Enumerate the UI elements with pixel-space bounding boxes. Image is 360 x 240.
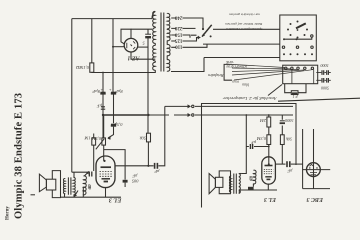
svg-text:µF: µF [287, 169, 293, 174]
wire left rail vertical [71, 19, 73, 173]
svg-text:240: 240 [174, 14, 182, 20]
svg-text:600: 600 [248, 175, 253, 181]
node rail x103 on B+ line [102, 72, 104, 74]
resistor R 0.1M [90, 63, 94, 72]
tick mark left margin [31, 194, 36, 196]
speaker 2 cone [209, 174, 215, 194]
resistor R 0.3M [267, 135, 271, 145]
svg-text:µF: µF [132, 174, 138, 179]
power transformer T1 core [161, 13, 164, 72]
connector arrow lower to box [188, 113, 192, 117]
svg-text:50k: 50k [139, 135, 146, 140]
wire box rail lower [195, 114, 293, 116]
wire B+ bus thin continuation [148, 114, 187, 116]
wire AZ1 top loop [121, 29, 131, 44]
svg-text:µF: µF [251, 140, 256, 145]
speaker 1 coil box [46, 179, 55, 190]
svg-text:EL 3: EL 3 [264, 196, 277, 202]
capacitor across primary [89, 172, 92, 177]
wire bottom rail stage1 [61, 196, 122, 198]
wire selector output to panel [203, 43, 280, 45]
wire tube2 plate line [275, 163, 286, 165]
svg-text:Horny: Horny [6, 206, 11, 220]
AZ1 plate electrodes [127, 41, 135, 49]
svg-text:600: 600 [87, 184, 92, 190]
capacitor pair lower 5000pF [316, 79, 331, 81]
selector knob bar [296, 23, 306, 28]
wire tap 220 [183, 27, 196, 29]
power transformer T1 right winding section A [167, 13, 170, 28]
wire fuse loop [285, 84, 306, 93]
wire speaker frame bottom [60, 197, 62, 199]
capacitor C 8uF second [111, 91, 116, 93]
wire T3 top lead [239, 173, 242, 175]
choke tap arrow top [84, 171, 89, 176]
EL3 second electrodes [265, 165, 273, 167]
svg-text:5000: 5000 [284, 118, 293, 123]
wire EL3 plate line [115, 165, 154, 167]
node plate junction [147, 165, 149, 167]
wire top horizontal bus [72, 18, 152, 20]
T3 core [234, 174, 237, 194]
wire T1 right winding links and taps [167, 13, 176, 72]
wire T1 winding section links [152, 27, 155, 73]
node tube2 grid [268, 163, 270, 165]
fuse F1 [291, 91, 298, 95]
svg-text:Olympic 38 Endstufe E 173: Olympic 38 Endstufe E 173 [14, 93, 25, 219]
node selector contact [210, 35, 212, 37]
connector arrow upper to box [188, 104, 192, 108]
bracket connector [224, 64, 232, 80]
svg-text:50k: 50k [286, 137, 292, 142]
wire cap to pot wiper arrow [108, 127, 114, 138]
svg-text:weiß: weiß [226, 60, 233, 64]
power transformer T1 left winding section A [153, 11, 156, 26]
capacitor small on rail [101, 107, 105, 109]
wire to upper connector arrow [165, 105, 188, 107]
switch voltage selector arm [202, 25, 212, 37]
node rail junction b [268, 114, 270, 116]
wire HV tap to winding [131, 28, 152, 30]
power transformer T1 right winding section D [167, 60, 170, 72]
wire T2 primary top to left rail [73, 172, 75, 177]
power transformer T1 left winding section B [153, 28, 156, 43]
capacitor C 8uF first [101, 91, 106, 93]
choke bottom arrow [74, 191, 78, 198]
resistor R 2M [267, 117, 271, 127]
terminal circles [285, 67, 287, 69]
capacitor C 0.05uF body [123, 180, 128, 183]
capacitor coupling C2 [287, 161, 290, 167]
EBC3 electrodes [310, 164, 318, 174]
capacitor 5000 [280, 120, 285, 122]
node selector pivot [202, 28, 204, 30]
tube EL3 first envelope [96, 156, 115, 188]
wire tap 150 [183, 35, 197, 38]
node grid top cap [103, 160, 105, 162]
wire vertical AZ1 plate rail [112, 19, 114, 92]
svg-text:F 1: F 1 [292, 94, 298, 99]
wire resistor chain vertical [268, 115, 270, 164]
wire selector mid to panel [213, 28, 280, 30]
svg-text:0,1MΩ: 0,1MΩ [75, 64, 89, 70]
svg-text:nur rückwärts gesehen: nur rückwärts gesehen [229, 13, 260, 17]
wire AZ1 filament to heater winding [131, 52, 152, 59]
svg-text:2M: 2M [260, 118, 266, 123]
speaker 1 cone [39, 174, 46, 192]
svg-text:schwarz grau: schwarz grau [226, 65, 247, 69]
wire 50k bottom to plate line [147, 142, 149, 166]
svg-text:8µF: 8µF [115, 89, 123, 94]
wire vertical to R 0.1M [91, 19, 93, 63]
wire tap 240 [183, 18, 204, 29]
EL3 first electrodes [101, 166, 112, 168]
wire grid cap rail x113.5 [113, 92, 115, 123]
resistor R 1M [92, 138, 96, 145]
panel contact row 2 circles [282, 46, 284, 48]
resistor R 50k second [280, 135, 284, 145]
wire cathode rail vertical x148 [147, 29, 149, 133]
svg-text:+: + [109, 87, 112, 92]
capacitor pair upper 5000pF [316, 72, 331, 74]
wire EBC3 horizontal lead [303, 169, 331, 171]
node rail junction a [245, 114, 247, 116]
wire selector lower output to panel [204, 57, 280, 59]
node grid junction 2 [268, 146, 270, 148]
svg-text:5000: 5000 [321, 85, 329, 90]
svg-text:1M: 1M [84, 136, 90, 141]
tube EL3 second envelope [262, 157, 276, 184]
wire pot bottom to grid [103, 145, 105, 161]
capacitor cathode 2 body [248, 187, 254, 191]
wire long mains line [278, 98, 360, 101]
power transformer T1 right winding section B [167, 30, 170, 41]
leader line to box label [268, 85, 282, 96]
svg-text:150: 150 [174, 31, 182, 37]
wire stage2 bottom rail [239, 184, 277, 194]
node B+ bus left [102, 114, 104, 116]
capacitor grid coupling 2 [250, 144, 252, 149]
svg-text:8µF: 8µF [92, 89, 100, 94]
wire coupling cap 2 to EBC3 [291, 163, 303, 165]
potentiometer 0.5M body [102, 138, 106, 145]
wire fan lead 1 [232, 64, 285, 67]
node AZ1 left plate junction [112, 46, 114, 48]
wire riser to T3 and grid cap [242, 115, 246, 174]
wire coupling cap to riser [158, 106, 164, 165]
choke 600 ohm coil [83, 176, 87, 195]
speaker 2 coil box [215, 177, 223, 187]
svg-text:5: 5 [142, 40, 145, 45]
output transformer T3 left winding [229, 176, 231, 192]
power transformer T1 right winding section C [167, 45, 170, 56]
power transformer T1 left winding heater section [153, 62, 156, 70]
wire grid cap branch [246, 146, 268, 148]
capacitor coupling C1 [155, 163, 158, 169]
wire fan lead 5 [234, 70, 312, 80]
wire T1 left winding top lead [152, 12, 155, 19]
box optional second speaker outline [202, 104, 297, 208]
svg-text:0,5µ: 0,5µ [114, 121, 122, 127]
svg-text:125: 125 [174, 37, 182, 43]
wire EL3 cathode to rail [105, 188, 107, 198]
wire 0.05uF bottom lead [124, 183, 126, 187]
terminal strip internal wires [292, 70, 314, 84]
svg-text:5000: 5000 [321, 63, 329, 68]
wire heater left stub [151, 58, 153, 60]
T2 core [68, 177, 71, 194]
speaker 2 frame [219, 171, 230, 194]
svg-text:blau: blau [242, 83, 249, 87]
wire T2 bottom leads [65, 188, 84, 198]
svg-text:Spannungswert einstellen: Spannungswert einstellen [226, 27, 262, 31]
wire B+ bus bold [103, 114, 148, 116]
wire box rail upper [195, 105, 293, 107]
wire R1M bottom lead [93, 145, 95, 171]
choke 2 coil 600 [253, 170, 256, 184]
wire EBC3 center vertical [313, 129, 315, 189]
node bus x148 junction [147, 114, 149, 116]
panel contact row 1 [283, 29, 298, 40]
power transformer T1 left winding section C [153, 45, 156, 60]
wire EBC3 left vertical [302, 129, 304, 189]
svg-text:0,5M: 0,5M [92, 135, 101, 141]
wire tube2 cathode [267, 184, 269, 190]
wire 50k2 chain [281, 115, 283, 164]
wire R1M top lead [93, 134, 95, 138]
svg-text:0,3M: 0,3M [257, 135, 266, 141]
resistor R 50k [147, 133, 151, 142]
wire left rail to choke top [72, 171, 88, 173]
wire tap 110 [183, 44, 208, 47]
panel contact row 3 [283, 53, 313, 55]
output transformer T2 left winding [63, 179, 65, 194]
svg-text:Heizfaden: Heizfaden [208, 73, 224, 77]
svg-text:220: 220 [174, 25, 182, 31]
svg-text:110: 110 [175, 44, 183, 50]
panel wire link [284, 37, 312, 39]
tube EBC3 socket [307, 163, 321, 177]
wire fan lead 2 [232, 67, 291, 70]
T2 right winding [73, 177, 75, 194]
terminal strip box [283, 65, 318, 84]
svg-text:µF: µF [96, 104, 102, 109]
svg-text:rosa: rosa [232, 79, 239, 83]
wire pot top lead to bus [103, 115, 105, 138]
wire T1 primary bottom lead [171, 58, 204, 72]
svg-text:Beide Wähler auf gleichen: Beide Wähler auf gleichen [225, 22, 262, 26]
T3 right winding [239, 173, 241, 193]
wire fan lead 4 [232, 70, 304, 75]
svg-text:Anschluß für 2. Lautsprecher: Anschluß für 2. Lautsprecher [223, 96, 278, 101]
capacitor 5nF at AZ1 cathode [145, 33, 151, 35]
wire fan lead 3 [232, 70, 297, 72]
pot wiper diagonal [96, 139, 105, 150]
svg-text:µF: µF [154, 169, 160, 174]
wire AZ1 right lead to cathode rail [138, 46, 148, 48]
wire R 0.1M bottom to heater winding bottom [92, 71, 152, 73]
capacitor C 0.5uF [111, 123, 116, 125]
wire grid branch to 0.05uF cap [104, 150, 125, 180]
wire AZ1 left plate lead [113, 46, 124, 48]
wire EBC3 bottom rail [303, 188, 330, 190]
svg-text:EBC 3: EBC 3 [306, 196, 324, 202]
wire filter rail vertical x103 [102, 73, 104, 139]
panel voltage selector plate [280, 15, 317, 61]
svg-text:005: 005 [131, 178, 138, 183]
selector dots circle [287, 21, 308, 39]
rectifier AZ1 envelope [124, 38, 138, 52]
speaker 1 frame [52, 171, 60, 198]
wire tap 125 [183, 36, 200, 41]
